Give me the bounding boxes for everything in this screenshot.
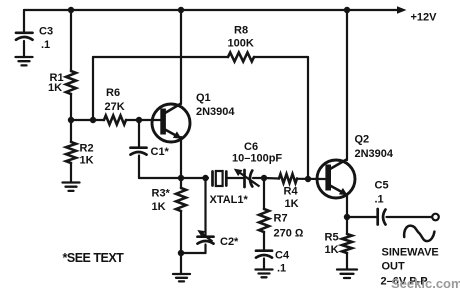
wire feedback vertical right — [307, 57, 309, 179]
svg-text:C4: C4 — [275, 250, 290, 262]
resistor R3 — [152, 178, 187, 253]
svg-text:R4: R4 — [284, 186, 299, 198]
svg-text:1K: 1K — [48, 82, 62, 94]
wire Q1 collector — [180, 10, 182, 104]
resistor R2 — [66, 120, 94, 182]
svg-text:1K: 1K — [285, 198, 299, 210]
junction C6/R4/R7 — [261, 175, 267, 181]
ground (C3) — [16, 57, 33, 65]
wire feedback horizontal left of R8 — [93, 56, 228, 58]
wire R4 to Q2 base — [297, 178, 326, 180]
wire R6 to Q1 base — [126, 119, 161, 121]
junction rail/Q1 collector — [178, 7, 184, 13]
resistor R1 — [48, 71, 76, 94]
ground (R2) — [63, 183, 80, 191]
resistor R4 — [279, 174, 299, 210]
wire C2 to R3 bottom — [181, 252, 206, 254]
wire emitter row — [139, 177, 208, 179]
svg-text:100K: 100K — [228, 38, 254, 50]
svg-text:R2: R2 — [80, 143, 94, 155]
transistor Q2 — [317, 134, 394, 199]
svg-text:10–100pF: 10–100pF — [232, 153, 282, 165]
svg-text:R3*: R3* — [152, 188, 171, 200]
junction R8 feedback/Q2 base — [305, 176, 311, 182]
svg-text:Q2: Q2 — [355, 134, 370, 146]
wire base row — [71, 119, 104, 121]
svg-text:R8: R8 — [234, 25, 248, 37]
junction emitter/C1 — [178, 175, 184, 181]
svg-text:1K: 1K — [152, 201, 166, 213]
junction XTAL/C2 — [202, 175, 208, 181]
svg-text:2N3904: 2N3904 — [196, 106, 235, 118]
capacitor C5 — [347, 180, 432, 225]
svg-text:2N3904: 2N3904 — [355, 148, 394, 160]
capacitor C6 (variable) — [232, 141, 282, 187]
svg-text:.1: .1 — [41, 39, 50, 51]
svg-text:1K: 1K — [80, 155, 94, 167]
svg-text:OUT: OUT — [382, 261, 406, 273]
wire R1 bottom lead — [70, 94, 72, 120]
resistor R7 — [259, 178, 304, 250]
sinewave symbol — [404, 226, 434, 241]
svg-text:C3: C3 — [39, 26, 53, 38]
capacitor C1 — [131, 120, 170, 178]
junction rail/R1 — [68, 7, 74, 13]
wire Q2 collector — [346, 10, 348, 160]
wire +12V supply rail — [24, 9, 398, 11]
junction R3/C2 ground node — [178, 250, 184, 256]
svg-text:+12V: +12V — [411, 12, 438, 24]
resistor R5 — [325, 217, 353, 269]
capacitor C3 — [16, 10, 53, 57]
svg-text:270 Ω: 270 Ω — [274, 228, 304, 240]
capacitor C2 (trimmer) — [197, 178, 239, 253]
node output terminal — [432, 214, 439, 221]
svg-text:C5: C5 — [375, 180, 389, 192]
capacitor C4 — [256, 250, 290, 275]
wire Q1 emitter — [180, 137, 182, 178]
svg-text:XTAL1*: XTAL1* — [210, 194, 249, 206]
ground (C4) — [256, 270, 273, 278]
wire R1 top lead — [70, 10, 72, 71]
svg-text:.1: .1 — [277, 263, 286, 275]
svg-text:Q1: Q1 — [196, 92, 211, 104]
wire feedback vertical left — [92, 57, 94, 120]
svg-text:R6: R6 — [106, 87, 120, 99]
junction feedback tap — [90, 117, 96, 123]
svg-text:R5: R5 — [325, 232, 339, 244]
label SINEWAVE OUT — [381, 247, 439, 288]
svg-text:*SEE TEXT: *SEE TEXT — [63, 251, 125, 265]
svg-text:C2*: C2* — [220, 236, 239, 248]
svg-text:C1*: C1* — [151, 146, 170, 158]
resistor R8 — [228, 25, 255, 62]
+12V arrowhead — [397, 6, 407, 13]
node base wire junction (R1/R2) — [68, 117, 74, 123]
svg-text:R7: R7 — [274, 213, 288, 225]
transistor Q1 — [152, 92, 235, 142]
svg-text:C6: C6 — [244, 141, 258, 153]
ground (R5) — [337, 270, 357, 279]
junction Q2 emitter/R5/C5 — [344, 214, 350, 220]
resistor R6 — [104, 87, 126, 125]
svg-text:SINEWAVE: SINEWAVE — [382, 247, 439, 259]
svg-text:27K: 27K — [105, 101, 125, 113]
ground (R3/C2) — [173, 274, 190, 281]
svg-text:Seekic.com: Seekic.com — [391, 276, 460, 291]
wire to R4 — [264, 177, 279, 180]
junction rail/Q2 collector — [344, 7, 350, 13]
wire ground stem — [180, 253, 182, 274]
junction C1 tap — [136, 117, 142, 123]
wire feedback horizontal right of R8 — [254, 56, 308, 58]
wire XTAL to C6 — [228, 177, 244, 179]
svg-text:1K: 1K — [325, 244, 339, 256]
wire Q2 emitter — [346, 194, 348, 217]
crystal XTAL1 — [210, 171, 249, 206]
svg-text:.1: .1 — [375, 194, 384, 206]
